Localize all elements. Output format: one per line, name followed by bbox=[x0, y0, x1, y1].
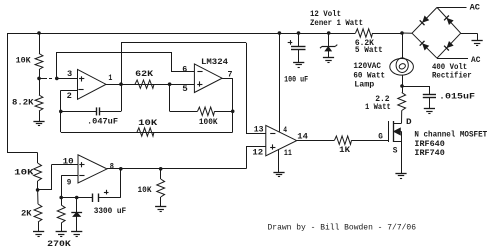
svg-text:4: 4 bbox=[283, 125, 287, 135]
wire pin2 node down to 10K line bbox=[60, 111, 62, 132]
ground below source bbox=[395, 173, 406, 175]
node lamp-cap junction bbox=[400, 84, 404, 88]
svg-text:1K: 1K bbox=[339, 145, 351, 155]
resistor R 2.2 1 Watt bbox=[402, 86, 404, 93]
wire cap up to output node bbox=[121, 84, 123, 111]
svg-text:13: 13 bbox=[254, 125, 264, 135]
svg-text:8: 8 bbox=[110, 161, 114, 171]
wire pin2 loop to cap bbox=[61, 90, 78, 92]
svg-text:2: 2 bbox=[67, 91, 72, 101]
ground below pin 11 bbox=[273, 172, 284, 174]
svg-text:3: 3 bbox=[67, 69, 72, 79]
svg-text:10K: 10K bbox=[14, 167, 35, 177]
svg-text:LM324: LM324 bbox=[201, 57, 228, 67]
svg-text:1 Watt: 1 Watt bbox=[365, 102, 391, 112]
wire +12V top rail bbox=[7, 33, 356, 35]
node lamp junction on rail bbox=[400, 31, 404, 35]
ground below 8.2K bbox=[33, 121, 44, 123]
svg-text:Drawn by - Bill Bowden - 7/7/0: Drawn by - Bill Bowden - 7/7/06 bbox=[268, 225, 417, 233]
wire bridge bottom AC bbox=[437, 58, 468, 60]
wire rail to bridge bbox=[402, 32, 412, 34]
op-amp U1d pins 13 12 14 11 4 bbox=[266, 125, 297, 155]
svg-text:6: 6 bbox=[182, 65, 187, 75]
lamp 120VAC 60 Watt bbox=[402, 33, 404, 59]
diode D1 bbox=[61, 197, 76, 199]
wire 3300uF up to output node bbox=[120, 169, 122, 198]
resistor R 10K mid-left bbox=[34, 163, 42, 181]
wire pin14 output to gate bbox=[297, 140, 335, 142]
node diode junction bbox=[75, 196, 79, 200]
wire left border rail bbox=[7, 33, 9, 153]
resistor R 8.2K bbox=[39, 78, 41, 95]
wire pin11 to ground bbox=[278, 149, 280, 172]
ground AC right bbox=[472, 40, 483, 42]
svg-text:10K: 10K bbox=[138, 185, 153, 195]
svg-text:9: 9 bbox=[67, 177, 72, 187]
svg-text:G: G bbox=[378, 131, 383, 141]
svg-text:2K: 2K bbox=[21, 209, 33, 219]
wire pin9 loop bbox=[61, 175, 78, 177]
svg-text:10K: 10K bbox=[16, 56, 32, 66]
resistor R 10K top-left bbox=[39, 33, 41, 54]
svg-text:.015uF: .015uF bbox=[439, 92, 475, 102]
svg-text:D: D bbox=[406, 117, 412, 127]
resistor R 10K pulldown bbox=[159, 167, 163, 171]
wire pin4 to +12V rail bbox=[278, 31, 282, 35]
node pin2-cap junction bbox=[59, 110, 63, 114]
svg-text:11: 11 bbox=[284, 148, 292, 158]
svg-text:100 uF: 100 uF bbox=[284, 75, 308, 85]
node 100K output junction bbox=[231, 110, 235, 114]
resistor R 6.2K 5 Watt bbox=[356, 29, 373, 37]
svg-text:5 Watt: 5 Watt bbox=[355, 45, 383, 55]
svg-text:.047uF: .047uF bbox=[87, 117, 118, 127]
resistor R 1K bbox=[335, 136, 352, 144]
svg-text:Lamp: Lamp bbox=[354, 80, 374, 90]
resistor R 100K feedback bbox=[169, 84, 171, 111]
transistor Q1 N channel MOSFET bbox=[388, 121, 390, 142]
wire output up-over to pin13 bbox=[121, 43, 123, 84]
node 62K right junction bbox=[168, 82, 172, 86]
capacitor C .047uF bbox=[61, 111, 96, 113]
diode bridge bottom-right bbox=[444, 41, 454, 51]
capacitor C 100uF bbox=[297, 31, 301, 35]
resistor R 10K middle bbox=[137, 128, 154, 136]
capacitor C 3300uF bbox=[77, 197, 93, 199]
op-amp U1a pins 3 2 1 bbox=[78, 69, 107, 99]
node output U1a junction bbox=[119, 82, 123, 86]
wire bridge right to ground bbox=[461, 33, 477, 35]
svg-text:10K: 10K bbox=[138, 118, 158, 128]
wire output U1a to 62K bbox=[106, 84, 194, 86]
svg-text:12: 12 bbox=[252, 147, 263, 157]
ground below diode bbox=[71, 231, 82, 233]
bridge rectifier 400 Volt bbox=[412, 7, 437, 33]
wire pin7 output down bbox=[222, 78, 233, 80]
wire pin12 down-left bbox=[246, 146, 266, 148]
wire pin3 node up-over to LM324 pin6 bbox=[56, 52, 58, 78]
svg-text:100K: 100K bbox=[199, 117, 218, 127]
op-amp U1b LM324 pins 6 5 7 bbox=[194, 64, 222, 93]
svg-text:AC: AC bbox=[470, 3, 480, 13]
svg-text:Rectifier: Rectifier bbox=[432, 71, 472, 81]
ground below .015uF bbox=[424, 108, 435, 110]
node rail-10K junction bbox=[37, 31, 41, 35]
ground below 270K bbox=[56, 231, 67, 233]
svg-text:3300 uF: 3300 uF bbox=[94, 206, 127, 216]
ground below 10K pulldown bbox=[155, 206, 166, 208]
node pin3 feedback junction bbox=[55, 77, 59, 81]
resistor R 2K bbox=[37, 190, 39, 204]
node divider2 tap junction bbox=[36, 188, 40, 192]
ground below 100uF bbox=[293, 62, 304, 64]
wire tap to pin10 bbox=[38, 189, 52, 191]
ground below zener bbox=[323, 57, 334, 59]
diode bridge top-left bbox=[420, 15, 430, 25]
diode bridge top-right bbox=[444, 15, 454, 25]
resistor R 62K bbox=[135, 80, 154, 88]
wire dashed tap to pin3 bbox=[39, 78, 47, 80]
diode bridge bottom-left bbox=[420, 41, 430, 51]
svg-text:S: S bbox=[393, 145, 398, 155]
svg-text:270K: 270K bbox=[47, 239, 72, 249]
capacitor C .015uF bbox=[402, 86, 429, 88]
svg-text:62K: 62K bbox=[135, 69, 154, 79]
svg-text:1: 1 bbox=[108, 73, 112, 83]
op-amp U1c pins 10 9 8 bbox=[78, 155, 107, 183]
svg-text:5: 5 bbox=[182, 84, 188, 94]
svg-text:Zener 1 Watt: Zener 1 Watt bbox=[310, 18, 363, 28]
node divider tap junction bbox=[37, 77, 41, 81]
svg-text:IRF740: IRF740 bbox=[414, 148, 444, 158]
wire bridge top AC bbox=[437, 7, 467, 9]
ground below 2K bbox=[33, 231, 44, 233]
resistor R 270K bbox=[61, 198, 63, 206]
node pin9 junction bbox=[59, 196, 63, 200]
zener diode Z1 12V bbox=[327, 31, 331, 35]
wire source to ground bbox=[401, 132, 403, 174]
node output U1c junction bbox=[119, 167, 123, 171]
svg-text:8.2K: 8.2K bbox=[12, 98, 35, 108]
svg-text:AC: AC bbox=[471, 55, 480, 65]
